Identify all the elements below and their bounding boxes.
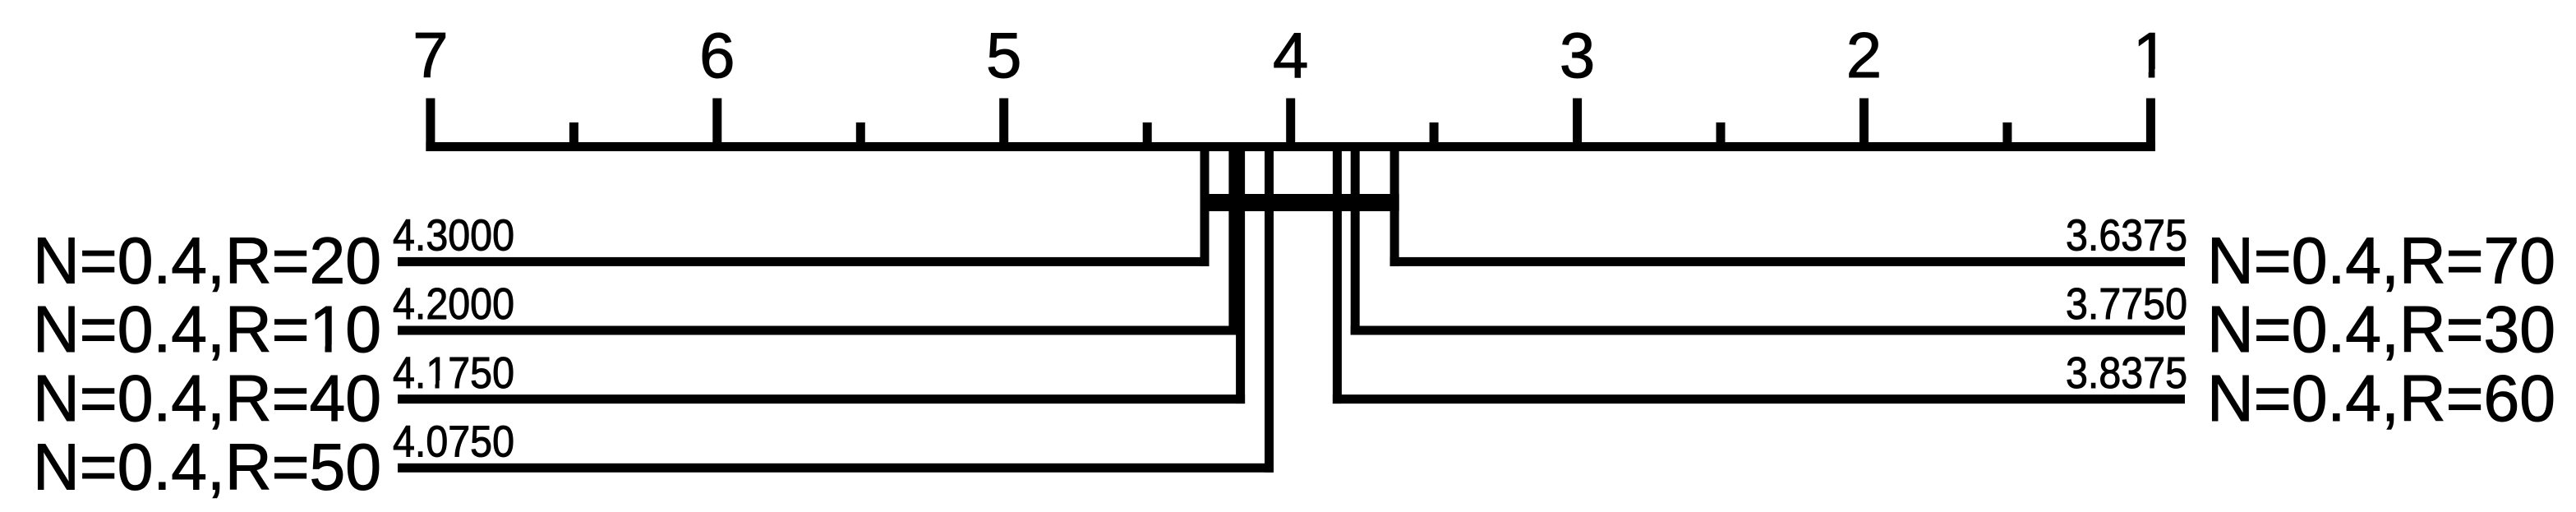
svg-text:4.0750: 4.0750 <box>393 417 514 467</box>
svg-text:N=0.4,R=30: N=0.4,R=30 <box>2207 293 2555 366</box>
svg-text:N=0.4,R=40: N=0.4,R=40 <box>33 362 381 435</box>
svg-text:7: 7 <box>412 19 448 91</box>
svg-text:1: 1 <box>2133 19 2168 91</box>
svg-text:3.6375: 3.6375 <box>2066 211 2187 261</box>
svg-text:4.1750: 4.1750 <box>393 348 514 398</box>
svg-text:6: 6 <box>699 19 735 91</box>
svg-text:3.7750: 3.7750 <box>2066 279 2187 329</box>
svg-text:4.2000: 4.2000 <box>393 279 514 329</box>
svg-text:2: 2 <box>1846 19 1882 91</box>
svg-text:N=0.4,R=60: N=0.4,R=60 <box>2207 362 2555 435</box>
svg-text:N=0.4,R=20: N=0.4,R=20 <box>33 224 381 298</box>
svg-text:4: 4 <box>1273 19 1308 91</box>
svg-text:N=0.4,R=50: N=0.4,R=50 <box>33 431 381 504</box>
svg-text:3.8375: 3.8375 <box>2066 348 2187 398</box>
svg-text:N=0.4,R=70: N=0.4,R=70 <box>2207 224 2555 298</box>
svg-text:5: 5 <box>986 19 1021 91</box>
svg-text:3: 3 <box>1560 19 1595 91</box>
svg-text:N=0.4,R=10: N=0.4,R=10 <box>33 293 381 366</box>
svg-text:4.3000: 4.3000 <box>393 211 514 261</box>
